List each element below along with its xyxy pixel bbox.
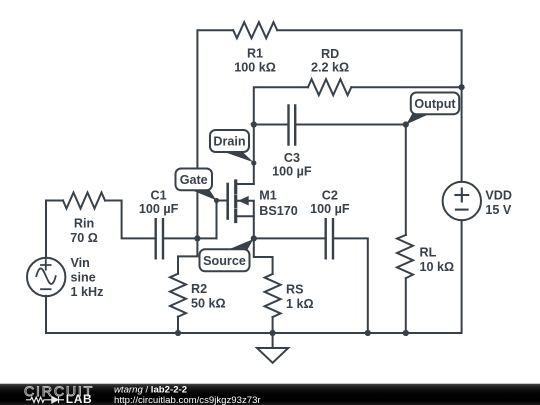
svg-text:Output: Output xyxy=(414,97,456,111)
voltage source VDD xyxy=(443,182,481,220)
junction RL-ground rail xyxy=(403,330,409,336)
wire input: Vin top to Rin xyxy=(46,201,63,259)
wire C3 right to output node xyxy=(295,124,406,126)
wire Rin right to C1 xyxy=(105,201,156,239)
wire C1 right to gate node xyxy=(163,237,217,239)
wire RL bottom lead xyxy=(405,278,407,333)
resistor RL xyxy=(397,235,413,278)
svg-text:15 V: 15 V xyxy=(485,203,512,217)
junction gate bias node xyxy=(194,235,200,241)
svg-text:VDD: VDD xyxy=(485,189,512,203)
anchor dot node Drain xyxy=(251,160,256,165)
junction RS-ground rail xyxy=(270,330,276,336)
svg-text:http://circuitlab.com/cs9jkgz9: http://circuitlab.com/cs9jkgz93z73r xyxy=(114,395,261,405)
resistor RD xyxy=(308,79,351,95)
transistor M1 BS170 xyxy=(228,181,254,238)
callout Gate xyxy=(176,169,217,201)
wire gate lead and down to bias node xyxy=(217,201,228,239)
svg-text:sine: sine xyxy=(71,271,96,285)
capacitor C2 xyxy=(326,219,333,258)
junction output node xyxy=(403,121,409,127)
wire C2 right down to bottom rail xyxy=(333,238,368,333)
svg-text:R2: R2 xyxy=(191,282,207,296)
wire bottom rail xyxy=(46,220,462,333)
wire Vin bottom xyxy=(45,296,47,333)
svg-text:M1: M1 xyxy=(259,189,277,203)
wire drain node to C3 left plate xyxy=(254,124,289,126)
svg-text:100 kΩ: 100 kΩ xyxy=(234,61,276,75)
wire top-left vertical from gate node up and top rail to R1 xyxy=(197,30,233,238)
wire top rail right and down to VDD xyxy=(277,30,461,182)
junction source node xyxy=(251,235,257,241)
svg-text:C3: C3 xyxy=(284,151,300,165)
junction RD-VDD node xyxy=(459,84,465,90)
svg-text:wtarng / lab2-2-2: wtarng / lab2-2-2 xyxy=(114,385,187,396)
capacitor C1 xyxy=(156,219,163,258)
svg-text:Gate: Gate xyxy=(180,173,208,187)
svg-text:Rin: Rin xyxy=(74,216,94,230)
svg-text:Drain: Drain xyxy=(213,135,245,149)
wire R2 bottom lead xyxy=(177,317,179,333)
svg-text:Source: Source xyxy=(203,254,246,268)
callout Output xyxy=(406,93,459,125)
svg-text:1 kHz: 1 kHz xyxy=(71,285,104,299)
svg-text:RL: RL xyxy=(420,246,437,260)
svg-text:C1: C1 xyxy=(151,189,167,203)
callout Drain xyxy=(210,130,254,162)
voltage source Vin xyxy=(27,258,65,296)
svg-text:LAB: LAB xyxy=(66,392,92,405)
anchor dot node Gate xyxy=(214,198,219,203)
wire RD right lead xyxy=(351,86,461,88)
wire RS top lead xyxy=(254,238,273,274)
wire RD left lead from drain node xyxy=(254,87,308,124)
svg-text:1 kΩ: 1 kΩ xyxy=(286,297,314,311)
junction drain node xyxy=(251,121,257,127)
wire source node to C2 xyxy=(254,237,326,239)
junction C2-ground rail xyxy=(365,330,371,336)
svg-text:70 Ω: 70 Ω xyxy=(70,231,98,245)
svg-text:100 µF: 100 µF xyxy=(139,202,179,216)
wire R2 top lead xyxy=(178,238,197,273)
svg-text:2.2 kΩ: 2.2 kΩ xyxy=(311,60,349,74)
wire RS bottom lead xyxy=(272,317,274,333)
resistor Rin xyxy=(63,193,105,209)
wire output node down to RL xyxy=(405,125,407,236)
svg-text:10 kΩ: 10 kΩ xyxy=(420,260,455,274)
callout Source xyxy=(200,239,254,271)
svg-text:RD: RD xyxy=(321,47,339,61)
svg-text:100 µF: 100 µF xyxy=(272,164,312,178)
resistor R1 xyxy=(233,22,277,38)
svg-text:BS170: BS170 xyxy=(259,204,298,218)
svg-text:C2: C2 xyxy=(322,189,338,203)
svg-text:Vin: Vin xyxy=(71,256,90,270)
bottom attribution bar xyxy=(0,384,540,405)
resistor R2 xyxy=(170,274,186,317)
wire drain vertical to transistor xyxy=(253,125,255,185)
svg-text:100 µF: 100 µF xyxy=(310,202,350,216)
capacitor C3 xyxy=(289,106,296,145)
junction R2-ground rail xyxy=(175,330,181,336)
svg-text:50 kΩ: 50 kΩ xyxy=(191,296,226,310)
resistor RS xyxy=(265,274,281,317)
svg-text:R1: R1 xyxy=(247,47,263,61)
svg-text:RS: RS xyxy=(286,283,304,297)
ground xyxy=(257,333,288,363)
